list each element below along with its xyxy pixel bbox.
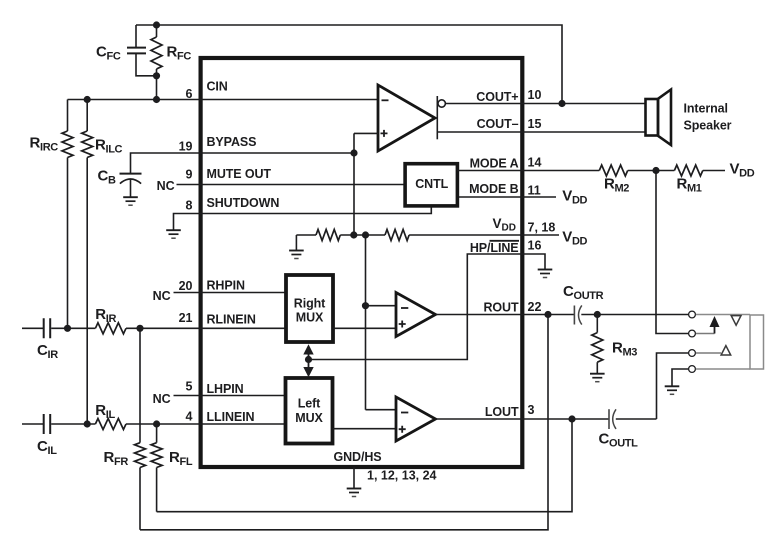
svg-text:COUT+: COUT+ — [476, 90, 518, 104]
wire Left MUX output to LOUT op-amp — [333, 428, 397, 430]
svg-text:LHPIN: LHPIN — [207, 382, 244, 396]
wire internal VDD line (pins 7,18) — [296, 234, 522, 236]
wire MUTE OUT internal (to CNTL) — [199, 184, 404, 186]
svg-text:VDD: VDD — [562, 229, 587, 248]
svg-text:NC: NC — [153, 289, 171, 303]
node junction ROUT feedback — [362, 302, 369, 309]
svg-text:Speaker: Speaker — [684, 119, 732, 133]
pin 10 COUT+ — [476, 88, 541, 104]
pin 22 ROUT — [483, 300, 541, 315]
svg-text:LLINEIN: LLINEIN — [207, 410, 255, 424]
pin GND/HS ground stub — [353, 467, 355, 489]
ground HP/LINE — [538, 270, 553, 278]
capacitor CIR — [37, 318, 58, 361]
wire to LOUT op-amp minus input — [366, 409, 397, 411]
svg-text:19: 19 — [179, 140, 193, 154]
svg-text:CNTL: CNTL — [415, 177, 448, 191]
wire COUT- (pin 15) to speaker — [437, 131, 645, 133]
node junction RFR top — [136, 325, 143, 332]
wire feedback bottom left channel (RFL to LOUT) — [157, 419, 572, 512]
svg-text:21: 21 — [179, 311, 193, 325]
pin GND/HS labels — [334, 450, 437, 483]
pin 15 COUT- — [477, 117, 542, 131]
wire ROUT (pin 22) — [436, 314, 689, 316]
wire LLINEIN internal — [199, 423, 286, 425]
svg-text:COUTR: COUTR — [563, 283, 604, 302]
svg-text:CFC: CFC — [96, 44, 121, 63]
IC body U1 — [201, 58, 523, 467]
wire to ROUT op-amp minus input — [366, 305, 397, 307]
svg-text:MUX: MUX — [296, 311, 324, 325]
wire CIN internal to op-amp U1A — [199, 99, 378, 101]
resistor internal divider left — [316, 230, 340, 241]
svg-text:BYPASS: BYPASS — [207, 135, 257, 149]
wire RM1 to VDD — [703, 170, 725, 172]
wire BYPASS internal — [199, 152, 354, 154]
wire jack contact 3 to ring triangle — [696, 352, 721, 354]
capacitor CFC — [96, 25, 157, 76]
node junction mux select — [305, 356, 312, 363]
svg-text:CIN: CIN — [207, 79, 228, 93]
svg-text:VDD: VDD — [493, 216, 516, 234]
wire mux select arrow — [303, 344, 313, 377]
pin 8 SHUTDOWN — [186, 196, 280, 212]
svg-text:CB: CB — [98, 168, 116, 187]
wire COUT+ (pin 10) to speaker — [445, 103, 645, 105]
wire top feedback from CFC/RFC to COUT+ — [136, 25, 562, 104]
svg-text:4: 4 — [186, 410, 193, 424]
svg-text:RFR: RFR — [104, 449, 129, 468]
wire jack contact 2 to tip arrow — [696, 333, 715, 335]
pin 9 MUTE OUT NC stub — [157, 167, 272, 193]
block Right MUX — [286, 275, 333, 342]
pin 7,18 VDD — [493, 216, 556, 235]
wire HP/LINE (pin 16) external to ground — [522, 254, 545, 270]
wire LOUT (pin 3) — [436, 418, 657, 420]
node junction mode select — [652, 167, 659, 174]
wire HP/LINE internal to mux select — [309, 254, 523, 360]
svg-text:22: 22 — [528, 300, 542, 314]
node junction divider A — [350, 231, 357, 238]
svg-text:RIRC: RIRC — [30, 135, 59, 154]
resistor internal divider right — [385, 230, 409, 241]
pin 16 HP/LINE with overbar on LINE — [470, 239, 542, 255]
wire MODE A (pin 14) from CNTL — [457, 170, 599, 172]
resistor RILC — [82, 100, 123, 425]
node junction RILC top — [84, 96, 91, 103]
svg-text:RM3: RM3 — [612, 340, 637, 359]
svg-text:RHPIN: RHPIN — [207, 278, 245, 292]
svg-text:CIR: CIR — [37, 342, 58, 361]
wire MODE B (pin 11) from CNTL — [459, 196, 556, 198]
svg-text:NC: NC — [157, 179, 175, 193]
svg-text:GND/HS: GND/HS — [334, 450, 382, 464]
svg-text:NC: NC — [153, 392, 171, 406]
svg-text:COUTL: COUTL — [599, 431, 639, 450]
wire jack sleeve gray top — [696, 314, 750, 316]
svg-text:RIR: RIR — [95, 306, 116, 325]
node junction LOUT feedback tap — [568, 415, 575, 422]
svg-text:CIL: CIL — [37, 438, 57, 457]
svg-text:HP/LINE: HP/LINE — [470, 241, 519, 255]
ground headphone jack — [665, 386, 680, 394]
svg-text:20: 20 — [179, 279, 193, 293]
wire RHPIN internal — [199, 292, 286, 294]
wire LLINEIN input line (pin 4) — [22, 423, 199, 425]
node junction COUT+ — [558, 100, 565, 107]
svg-text:RILC: RILC — [95, 137, 123, 156]
svg-text:16: 16 — [528, 239, 542, 253]
triangle marker open down — [731, 316, 741, 326]
svg-text:6: 6 — [186, 87, 193, 101]
svg-text:11: 11 — [528, 184, 541, 198]
resistor RFC — [151, 25, 191, 100]
block CNTL — [405, 164, 457, 206]
headphone jack contact 2 — [689, 330, 696, 337]
svg-text:ROUT: ROUT — [483, 301, 518, 315]
svg-text:RLINEIN: RLINEIN — [207, 313, 256, 327]
wire CIN input (pin 6) — [68, 99, 200, 101]
wire Right MUX output to ROUT op-amp — [333, 327, 396, 329]
wire jack sleeve gray bottom — [696, 368, 750, 370]
ground internal VDD divider — [289, 235, 304, 259]
svg-text:RM1: RM1 — [677, 176, 702, 195]
resistor RFR — [104, 328, 146, 530]
svg-text:LOUT: LOUT — [485, 405, 519, 419]
resistor RM2 — [599, 165, 629, 195]
wire BYPASS stub (pin 19) — [131, 153, 200, 174]
node junction RIRC bottom — [64, 325, 71, 332]
node junction RILC bottom — [84, 420, 91, 427]
node junction bypass — [350, 149, 357, 156]
ground SHUTDOWN — [166, 230, 181, 238]
svg-text:SHUTDOWN: SHUTDOWN — [207, 196, 280, 210]
resistor RIRC — [30, 100, 74, 329]
node junction ROUT feedback tap — [544, 311, 551, 318]
svg-text:MUTE OUT: MUTE OUT — [207, 167, 272, 181]
svg-text:MUX: MUX — [295, 411, 323, 425]
wire bypass vertical to +input and VDD divider — [354, 133, 378, 235]
node junction divider B — [362, 231, 369, 238]
capacitor CB — [98, 168, 142, 198]
ground GND/HS — [347, 489, 362, 497]
node junction RFL top — [153, 420, 160, 427]
op-amp U1C LOUT — [396, 397, 436, 441]
svg-text:VDD: VDD — [730, 161, 755, 180]
headphone jack contact 4 — [689, 366, 696, 373]
op-amp U1A speaker amp — [378, 85, 435, 151]
svg-text:14: 14 — [528, 156, 542, 170]
svg-text:Left: Left — [298, 396, 321, 410]
svg-text:7, 18: 7, 18 — [528, 221, 556, 235]
wire RM2 to RM1 — [628, 170, 675, 172]
resistor RIR — [95, 306, 126, 334]
svg-text:MODE B: MODE B — [469, 182, 518, 196]
resistor RM1 — [674, 165, 702, 195]
resistor RFL — [151, 424, 193, 512]
arrow tip indicator — [710, 316, 720, 334]
wire LHPIN internal — [199, 395, 286, 397]
wire bypass node down from divider B to op-amp feedbacks — [365, 235, 367, 410]
wire feedback bottom right channel (RFR to ROUT) — [140, 315, 548, 530]
jack plug body — [750, 315, 764, 369]
triangle marker open up — [721, 346, 731, 355]
wire op-amp U1A output bar — [436, 96, 438, 139]
svg-text:Right: Right — [294, 297, 326, 311]
ground CB — [123, 197, 138, 205]
block Left MUX — [286, 378, 333, 444]
wire mode junction down to headphone jack contact 2 — [656, 171, 688, 334]
pin 6 CIN — [186, 79, 228, 101]
svg-text:5: 5 — [186, 380, 193, 394]
svg-text:MODE A: MODE A — [470, 156, 519, 170]
node output bubble COUT+ — [438, 100, 445, 107]
headphone jack contact 3 — [689, 350, 696, 357]
resistor RM3 — [592, 315, 637, 374]
svg-text:9: 9 — [186, 168, 193, 182]
ground RM3 — [590, 374, 605, 382]
svg-text:8: 8 — [186, 199, 193, 213]
node junction RM3 top — [594, 311, 601, 318]
headphone jack contact 1 — [689, 311, 696, 318]
node junction RFC bottom on CIN — [153, 96, 160, 103]
node junction top RFC — [153, 21, 160, 28]
svg-text:3: 3 — [528, 403, 535, 417]
svg-text:RIL: RIL — [95, 402, 115, 421]
wire SHUTDOWN internal (to CNTL bottom) — [199, 206, 431, 214]
pin 14 MODE A — [470, 156, 542, 171]
resistor RIL — [95, 402, 126, 430]
svg-text:VDD: VDD — [562, 188, 587, 207]
svg-text:RM2: RM2 — [604, 176, 629, 195]
svg-text:Internal: Internal — [684, 102, 728, 116]
speaker internal — [646, 90, 732, 146]
pin 4 LLINEIN — [186, 410, 255, 425]
pin 21 RLINEIN — [179, 311, 256, 327]
svg-text:15: 15 — [528, 117, 542, 131]
op-amp U1B ROUT — [396, 293, 436, 337]
node junction RFC/CFC bottom — [153, 72, 160, 79]
wire RLINEIN internal — [199, 327, 286, 329]
svg-text:1, 12, 13, 24: 1, 12, 13, 24 — [367, 469, 437, 483]
pin 20 RHPIN NC stub — [153, 278, 245, 303]
pin 19 BYPASS — [179, 135, 257, 154]
pin 11 MODE B — [469, 182, 541, 197]
wire RLINEIN input line (pin 21) — [22, 327, 199, 329]
wire COUTL up to headphone jack contact 3 — [657, 353, 689, 419]
wire SHUTDOWN stub (pin 8) — [174, 214, 200, 231]
svg-text:10: 10 — [528, 88, 542, 102]
svg-text:RFL: RFL — [169, 449, 193, 468]
svg-text:COUT–: COUT– — [477, 117, 519, 131]
wire jack contact 4 to ground — [672, 369, 688, 386]
pin 3 LOUT — [485, 403, 535, 419]
wire VDD stub external — [522, 234, 559, 236]
capacitor CIL — [37, 414, 57, 457]
pin 5 LHPIN NC stub — [153, 380, 244, 407]
svg-text:RFC: RFC — [167, 44, 192, 63]
capacitor COUTR — [563, 283, 604, 325]
capacitor COUTL — [599, 409, 639, 449]
